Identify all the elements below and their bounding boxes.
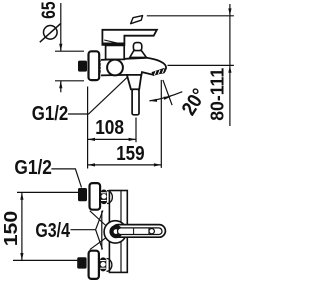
dimension Ø65 line lower — [60, 81, 62, 93]
escutcheon (side view) — [89, 51, 100, 80]
slot ticks — [134, 228, 149, 234]
dimension 150 ref line top — [17, 191, 79, 193]
extension line hose outlet — [135, 118, 137, 143]
upper union thread — [101, 190, 107, 205]
body tube (bottom view) — [109, 191, 127, 273]
extension line spout tip — [160, 80, 162, 168]
lever handle (hub + blade) — [102, 30, 156, 45]
diameter symbol — [44, 26, 58, 40]
screw hole in slot — [149, 229, 154, 234]
cartridge housing — [106, 45, 125, 59]
upper escutcheon (bottom view) — [90, 183, 101, 210]
lower escutcheon (bottom view) — [89, 251, 99, 279]
spout swivel 20 deg slant line — [163, 80, 172, 105]
svg-text:159: 159 — [116, 143, 144, 165]
lower union thread — [100, 257, 106, 271]
upper union arc — [107, 191, 112, 204]
dimension Ø65 line upper — [60, 3, 62, 51]
lever capsule seen from below — [112, 225, 165, 238]
svg-text:80-111: 80-111 — [207, 68, 228, 121]
svg-text:65: 65 — [39, 1, 60, 19]
lower union arc — [107, 259, 112, 272]
dimension Ø65 arrow bottom — [59, 81, 62, 88]
svg-text:G1/2: G1/2 — [32, 103, 69, 125]
dimension 150 line — [21, 192, 23, 260]
thread stripes behind escutcheon — [101, 60, 107, 73]
inner slot — [118, 228, 163, 235]
svg-text:G1/2: G1/2 — [14, 157, 52, 179]
hub circle (spout end-on) — [104, 221, 126, 243]
swivel arc arrow — [149, 92, 182, 101]
dimension 159 arrows — [88, 163, 95, 166]
leader G1/2 bottom — [51, 169, 81, 188]
dimension 80-111 ref line bottom — [168, 64, 234, 66]
dimension Ø65 arrow top — [59, 44, 62, 51]
upper wall nipple (bottom view) — [78, 188, 87, 201]
hose nipple cylinder — [132, 89, 139, 115]
cartridge nut donut — [112, 227, 121, 236]
svg-text:108: 108 — [95, 117, 124, 139]
cone lines to body — [90, 211, 107, 250]
handshower outlet trapezoid — [127, 75, 141, 89]
leader G3/4 fork — [71, 210, 103, 249]
dimension 108 arrows — [88, 138, 95, 141]
dimension 80-111 arrow bottom — [228, 65, 231, 72]
body ball joint circle — [107, 60, 123, 76]
dimension 80-111 ref line top — [147, 15, 234, 17]
raised handle tip parallelogram — [131, 16, 143, 24]
body and spout outline — [101, 58, 166, 76]
diverter knob — [133, 43, 141, 51]
aerator hatched band — [152, 70, 165, 74]
dimension 159 line — [88, 164, 162, 166]
dimension Ø65 ref line top — [55, 50, 84, 52]
dimension 108 line — [88, 138, 136, 140]
dimension 80-111 line — [229, 4, 231, 126]
line between escutcheons — [101, 211, 103, 250]
svg-text:150: 150 — [0, 211, 21, 247]
svg-text:G3/4: G3/4 — [35, 220, 70, 242]
leader G1/2 top — [68, 77, 128, 114]
dimension 150 arrows — [20, 192, 23, 199]
dimension 80-111 arrow top — [228, 8, 231, 15]
dimension Ø65 ref line bottom — [55, 80, 84, 82]
extension line wall (left) — [87, 87, 89, 169]
dimension 150 ref line bottom — [13, 259, 78, 261]
lower wall nipple (bottom view) — [77, 257, 86, 268]
wall nipple (side view) — [78, 61, 87, 72]
